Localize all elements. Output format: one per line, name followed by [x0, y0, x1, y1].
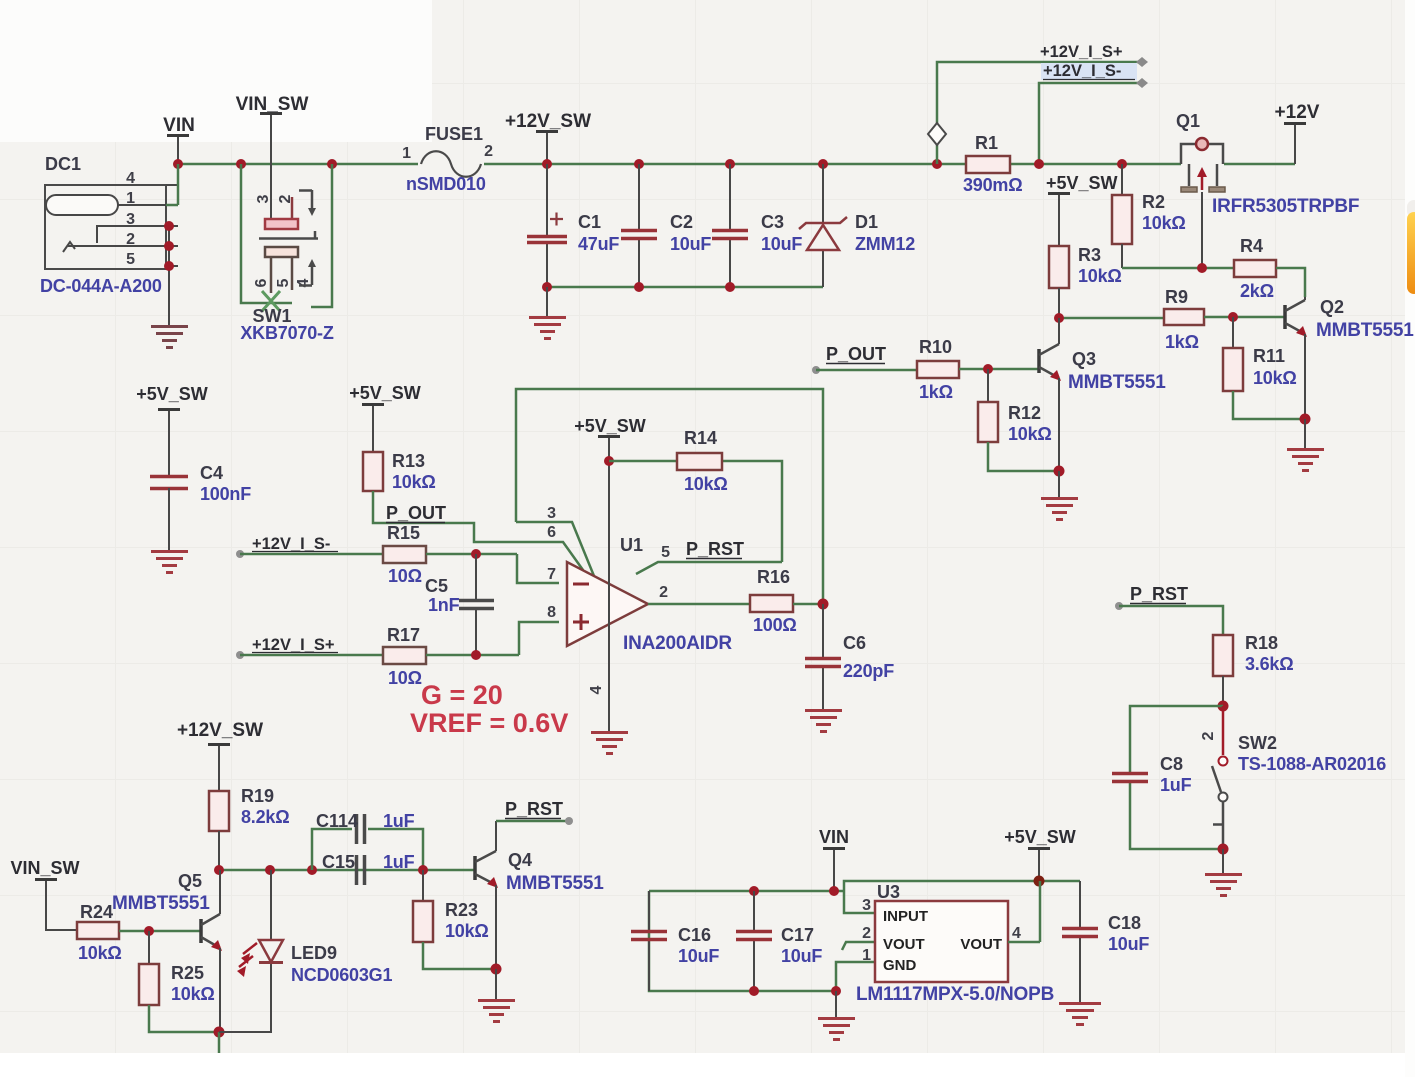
svg-text:D1: D1	[855, 212, 878, 232]
wire port to R17	[240, 654, 383, 657]
svg-text:R25: R25	[171, 963, 204, 983]
wire feedback loop top	[516, 389, 823, 602]
svg-text:MMBT5551: MMBT5551	[506, 873, 604, 894]
ground below C1	[529, 287, 566, 339]
resistor R15	[383, 523, 426, 586]
transistor Q2	[1285, 297, 1414, 419]
svg-text:3: 3	[255, 194, 272, 203]
resistor R2	[1112, 164, 1186, 268]
resistor R24	[77, 902, 122, 963]
svg-text:47uF: 47uF	[578, 234, 619, 254]
svg-text:XKB7070-Z: XKB7070-Z	[240, 323, 333, 343]
resistor R12	[978, 369, 1059, 471]
svg-text:6: 6	[547, 524, 556, 541]
capacitor C2	[621, 164, 711, 287]
resistor R16	[750, 567, 797, 635]
capacitor C15	[322, 852, 415, 885]
svg-text:INA200AIDR: INA200AIDR	[623, 633, 732, 654]
node C15 right junction	[418, 865, 428, 875]
wire stub below Q5	[218, 1032, 221, 1053]
svg-text:3.6kΩ: 3.6kΩ	[1245, 654, 1293, 674]
wire port to R15	[240, 553, 383, 556]
node C6 junction	[818, 599, 829, 610]
capacitor C17	[736, 891, 822, 991]
diode D1 zener	[799, 164, 915, 287]
wire U1 output pin2	[648, 584, 750, 604]
wire R15 to pin7	[426, 554, 559, 583]
power flag +12V_SW bottom	[177, 720, 263, 791]
node C3 top junction	[725, 159, 735, 169]
wire pin5 to R14	[636, 544, 782, 574]
node R3 bottom junction	[1054, 313, 1064, 323]
svg-text:2: 2	[862, 925, 871, 942]
power flag VIN	[163, 115, 195, 164]
svg-text:10kΩ: 10kΩ	[684, 474, 728, 494]
svg-text:10kΩ: 10kΩ	[1253, 368, 1297, 388]
wire bottom cap rail	[547, 286, 823, 289]
svg-text:R15: R15	[387, 523, 420, 543]
resistor R3	[1049, 245, 1122, 318]
wire Q4 collector to P_RST	[496, 817, 573, 825]
ground below Q3	[1041, 471, 1078, 520]
svg-text:10uF: 10uF	[678, 946, 719, 966]
LED LED9	[219, 870, 392, 1032]
svg-text:IRFR5305TRPBF: IRFR5305TRPBF	[1212, 196, 1359, 217]
capacitor C4	[150, 463, 251, 551]
resistor R11	[1223, 317, 1305, 419]
svg-text:10uF: 10uF	[781, 946, 822, 966]
ground below SW2	[1205, 849, 1242, 896]
node C17 bottom junction	[749, 986, 759, 996]
svg-text:MMBT5551: MMBT5551	[1316, 320, 1414, 341]
svg-text:4: 4	[126, 170, 135, 187]
ground below Q2	[1287, 419, 1324, 471]
svg-text:C3: C3	[761, 212, 784, 232]
node C114 branch junction	[307, 865, 317, 875]
power flag VIN_SW bottom	[10, 858, 79, 930]
wire pin6 diag	[547, 524, 583, 570]
svg-text:+12V_I_S-: +12V_I_S-	[252, 535, 330, 553]
node C2 bottom junction	[634, 282, 644, 292]
svg-text:R11: R11	[1253, 346, 1285, 366]
svg-text:10kΩ: 10kΩ	[1142, 213, 1186, 233]
resistor R4	[1234, 236, 1276, 301]
svg-text:4: 4	[588, 685, 605, 694]
svg-text:10kΩ: 10kΩ	[171, 984, 215, 1004]
svg-text:3: 3	[547, 505, 556, 522]
svg-text:nSMD010: nSMD010	[406, 174, 486, 194]
svg-text:R9: R9	[1165, 287, 1188, 307]
svg-text:220pF: 220pF	[843, 661, 894, 681]
svg-text:VIN_SW: VIN_SW	[236, 94, 309, 115]
wire current sense branch up	[937, 62, 1142, 164]
resistor R18	[1213, 633, 1293, 706]
svg-text:Q3: Q3	[1072, 349, 1096, 369]
wire R24 to Q5 base	[119, 930, 201, 933]
svg-text:+12V_I_S+: +12V_I_S+	[252, 636, 335, 654]
svg-text:P_OUT: P_OUT	[386, 503, 446, 523]
svg-text:DC-044A-A200: DC-044A-A200	[40, 276, 162, 296]
ground below Q4	[478, 969, 515, 1022]
resistor R23	[413, 870, 496, 969]
svg-text:P_RST: P_RST	[1130, 584, 1188, 604]
node Q5 emitter junction	[214, 1027, 225, 1038]
svg-text:+5V_SW: +5V_SW	[349, 383, 421, 403]
svg-text:R16: R16	[757, 567, 790, 587]
svg-text:+12V_I_S+: +12V_I_S+	[1040, 43, 1123, 61]
resistor R19	[209, 786, 289, 870]
power flag +5V_SW above U1	[574, 416, 646, 437]
svg-text:VIN: VIN	[819, 827, 849, 847]
capacitor C18	[1062, 881, 1149, 1003]
node C1 bottom junction	[542, 282, 552, 292]
connector DC1	[40, 154, 178, 296]
svg-text:8: 8	[547, 604, 556, 621]
resistor R9	[1164, 287, 1204, 352]
svg-text:10Ω: 10Ω	[388, 566, 422, 586]
power flag VIN above U3	[819, 827, 849, 891]
svg-text:VIN: VIN	[163, 115, 195, 136]
svg-text:NCD0603G1: NCD0603G1	[291, 965, 392, 985]
svg-text:+5V_SW: +5V_SW	[574, 416, 646, 436]
transistor Q3	[1039, 318, 1166, 471]
svg-text:+12V: +12V	[1275, 102, 1320, 123]
wire U3 bottom net	[649, 891, 836, 991]
node R24-R25 junction	[144, 926, 154, 936]
svg-text:10uF: 10uF	[761, 234, 802, 254]
svg-text:R10: R10	[919, 337, 952, 357]
wire DC1 pins 3-2-5 to ground	[168, 226, 170, 326]
net label P_RST mid	[686, 539, 744, 559]
svg-text:R4: R4	[1240, 236, 1263, 256]
svg-text:4: 4	[1012, 925, 1021, 942]
node +5V_SW junction	[1034, 876, 1045, 887]
node R10-R12 junction	[983, 364, 993, 374]
svg-text:R2: R2	[1142, 192, 1165, 212]
svg-text:10uF: 10uF	[1108, 934, 1149, 954]
svg-text:C17: C17	[781, 925, 814, 945]
svg-text:R1: R1	[975, 133, 998, 153]
svg-text:P_RST: P_RST	[686, 539, 744, 559]
wire R16 to C6	[793, 603, 823, 606]
svg-text:R17: R17	[387, 625, 420, 645]
capacitor C16	[631, 891, 719, 991]
resistor R25	[139, 931, 219, 1032]
wire SW1 left pole	[241, 164, 292, 303]
node DC1 pin2	[164, 241, 174, 251]
svg-text:LED9: LED9	[291, 943, 337, 963]
svg-text:+12V_SW: +12V_SW	[505, 111, 591, 132]
svg-text:100Ω: 100Ω	[753, 615, 797, 635]
ground below C6	[805, 711, 842, 732]
svg-text:+12V_I_S-: +12V_I_S-	[1043, 62, 1121, 80]
node C5 top junction	[471, 549, 481, 559]
svg-text:5: 5	[126, 251, 135, 268]
resistor R1	[963, 133, 1022, 195]
svg-text:1nF: 1nF	[428, 595, 460, 615]
fuse FUSE1	[402, 124, 493, 194]
capacitor C5	[425, 554, 494, 655]
ground below U1 pin4	[591, 733, 628, 754]
svg-text:R3: R3	[1078, 245, 1101, 265]
svg-text:+5V_SW: +5V_SW	[1046, 173, 1118, 193]
node rail-SW1 left junction	[236, 159, 246, 169]
wire R4 to Q2 collector	[1276, 268, 1305, 297]
node SW2 bottom junction	[1218, 844, 1229, 855]
node R18 bottom junction	[1218, 701, 1229, 712]
svg-text:1: 1	[862, 947, 871, 964]
wire SW1 right pole	[311, 164, 332, 307]
capacitor C114	[312, 811, 423, 870]
svg-text:10kΩ: 10kΩ	[445, 921, 489, 941]
svg-text:VOUT: VOUT	[883, 936, 925, 953]
svg-text:U3: U3	[877, 882, 900, 902]
orange scroll button right edge	[1407, 200, 1415, 294]
node DC1 pin5	[164, 261, 174, 271]
svg-text:100nF: 100nF	[200, 484, 251, 504]
node VIN junction U3	[829, 886, 839, 896]
capacitor C8	[1112, 754, 1192, 795]
power flag VIN_SW	[236, 94, 309, 219]
wire U3 input net	[649, 881, 1080, 891]
power flag +12V_SW	[505, 111, 591, 164]
svg-text:1kΩ: 1kΩ	[919, 382, 953, 402]
svg-text:SW2: SW2	[1238, 733, 1277, 753]
svg-text:G = 20: G = 20	[421, 680, 503, 710]
resistor R17	[383, 625, 426, 688]
svg-text:ZMM12: ZMM12	[855, 234, 915, 254]
svg-text:Q1: Q1	[1176, 111, 1200, 131]
node R1 right junction	[1034, 159, 1044, 169]
transistor Q4	[475, 821, 604, 969]
svg-text:C8: C8	[1160, 754, 1183, 774]
svg-text:R19: R19	[241, 786, 274, 806]
svg-text:R18: R18	[1245, 633, 1278, 653]
node C17 top junction	[749, 886, 759, 896]
power flag +5V_SW right	[1046, 173, 1118, 246]
svg-text:5: 5	[661, 544, 670, 561]
node DC1 pin3	[164, 221, 174, 231]
svg-text:GND: GND	[883, 957, 917, 974]
svg-text:C2: C2	[670, 212, 693, 232]
capacitor C6	[805, 604, 894, 710]
node VIN junction	[173, 159, 183, 169]
svg-text:U1: U1	[620, 535, 643, 555]
wire main top rail	[178, 163, 1295, 166]
node gate junction	[1197, 263, 1207, 273]
wire R17 to pin8	[426, 622, 559, 655]
wire R10 to Q3 base	[959, 368, 1039, 371]
svg-text:1uF: 1uF	[1160, 775, 1192, 795]
ground below U3	[818, 991, 855, 1040]
svg-text:390mΩ: 390mΩ	[963, 175, 1022, 195]
svg-text:FUSE1: FUSE1	[425, 124, 483, 144]
node C1 top junction	[542, 159, 552, 169]
svg-text:C15: C15	[322, 852, 355, 872]
net port +12V_I_S+	[1040, 43, 1148, 67]
annotation G = 20	[421, 680, 503, 710]
net label P_OUT mid	[386, 503, 446, 523]
net flag diamond	[928, 123, 946, 145]
transistor Q5	[112, 870, 222, 1032]
svg-text:R12: R12	[1008, 403, 1041, 423]
resistor R13	[363, 451, 436, 492]
wire pin4 riser	[1039, 881, 1042, 942]
svg-text:TS-1088-AR02016: TS-1088-AR02016	[1238, 754, 1386, 774]
capacitor C1	[527, 164, 619, 287]
svg-text:R13: R13	[392, 451, 425, 471]
switch SW2	[1200, 706, 1386, 849]
svg-text:10kΩ: 10kΩ	[78, 943, 122, 963]
ground below C18	[1059, 1004, 1101, 1025]
net port +12V_I_S- mid	[236, 535, 338, 558]
svg-text:MMBT5551: MMBT5551	[112, 893, 210, 914]
svg-text:VOUT: VOUT	[960, 936, 1002, 953]
node D1 top junction	[818, 159, 828, 169]
svg-text:C4: C4	[200, 463, 223, 483]
svg-text:+5V_SW: +5V_SW	[1004, 827, 1076, 847]
ground below DC1	[151, 327, 188, 348]
svg-text:3: 3	[862, 897, 871, 914]
svg-text:DC1: DC1	[45, 154, 81, 174]
node Q3 emitter junction	[1054, 466, 1065, 477]
svg-text:10kΩ: 10kΩ	[392, 472, 436, 492]
svg-text:Q5: Q5	[178, 871, 202, 891]
wire C8 branch	[1130, 706, 1223, 849]
transistor Q1 PMOS	[1176, 111, 1359, 268]
resistor R10	[917, 337, 959, 402]
svg-text:2: 2	[659, 584, 668, 601]
node R19 bottom junction	[214, 865, 224, 875]
svg-text:+5V_SW: +5V_SW	[136, 384, 208, 404]
svg-text:C114: C114	[316, 811, 358, 831]
wire R3 to R9	[1059, 317, 1164, 320]
power flag +5V_SW far left	[136, 384, 208, 476]
wire P_OUT to R10	[816, 369, 917, 372]
svg-text:Q4: Q4	[508, 850, 532, 870]
svg-text:10kΩ: 10kΩ	[1008, 424, 1052, 444]
svg-text:1: 1	[402, 145, 411, 162]
power flag +5V_SW above R13	[349, 383, 421, 452]
svg-text:VREF = 0.6V: VREF = 0.6V	[410, 708, 568, 738]
svg-text:2kΩ: 2kΩ	[1240, 281, 1274, 301]
node R9-R11 junction	[1228, 312, 1238, 322]
svg-text:6: 6	[253, 278, 270, 287]
node R1 left junction	[932, 159, 942, 169]
wire gate node horizontal	[1122, 267, 1234, 270]
svg-text:C6: C6	[843, 633, 866, 653]
svg-text:10kΩ: 10kΩ	[1078, 266, 1122, 286]
svg-text:C16: C16	[678, 925, 711, 945]
power flag +12V	[1275, 102, 1320, 164]
wire current sense minus branch	[1039, 83, 1139, 164]
node C2 top junction	[634, 159, 644, 169]
net label P_RST bottom	[505, 799, 563, 819]
node C5 bottom junction	[471, 650, 481, 660]
svg-text:10uF: 10uF	[670, 234, 711, 254]
wire pin3	[516, 505, 594, 576]
svg-text:C1: C1	[578, 212, 601, 232]
node R14 left junction	[604, 456, 614, 466]
op-amp U1	[547, 535, 732, 654]
svg-text:7: 7	[547, 566, 556, 583]
svg-text:Q2: Q2	[1320, 297, 1344, 317]
svg-text:P_RST: P_RST	[505, 799, 563, 819]
net port +12V_I_S+ mid	[236, 636, 338, 659]
node Q2 emitter junction	[1300, 414, 1311, 425]
svg-text:8.2kΩ: 8.2kΩ	[241, 807, 289, 827]
node R2 top junction	[1117, 159, 1127, 169]
svg-text:+12V_SW: +12V_SW	[177, 720, 263, 741]
svg-text:R14: R14	[684, 428, 717, 448]
wire P_RST to R18	[1119, 606, 1223, 635]
capacitor C3	[712, 164, 802, 287]
svg-text:MMBT5551: MMBT5551	[1068, 372, 1166, 393]
svg-text:INPUT: INPUT	[883, 908, 928, 925]
ground below C4	[151, 552, 188, 573]
annotation VREF = 0.6V	[410, 708, 568, 738]
svg-text:R23: R23	[445, 900, 478, 920]
wire R9 to Q2 base	[1204, 316, 1285, 319]
svg-text:2: 2	[484, 143, 493, 160]
wire R14 net	[609, 461, 782, 562]
svg-text:10Ω: 10Ω	[388, 668, 422, 688]
net label P_OUT	[812, 344, 886, 374]
svg-text:LM1117MPX-5.0/NOPB: LM1117MPX-5.0/NOPB	[856, 984, 1054, 1005]
svg-text:C18: C18	[1108, 913, 1141, 933]
node LED branch junction	[265, 865, 275, 875]
node U3 gnd junction	[831, 986, 841, 996]
power flag +5V_SW above C18	[1004, 827, 1076, 881]
svg-text:1uF: 1uF	[383, 852, 415, 872]
svg-text:VIN_SW: VIN_SW	[10, 858, 79, 878]
net label P_RST right	[1115, 584, 1188, 610]
svg-text:2: 2	[1200, 731, 1217, 740]
regulator U3	[836, 882, 1054, 1005]
svg-text:C5: C5	[425, 576, 448, 596]
wire R13 to pin6 (P_OUT net)	[373, 491, 558, 542]
svg-text:5: 5	[275, 278, 292, 287]
node rail-SW1 right junction	[327, 159, 337, 169]
wire base rail bottom-left	[219, 869, 475, 872]
wire U1 power pin4	[588, 436, 609, 732]
svg-text:1uF: 1uF	[383, 811, 415, 831]
net port +12V_I_S-	[1041, 62, 1148, 88]
switch SW1	[240, 190, 333, 343]
svg-text:P_OUT: P_OUT	[826, 344, 886, 364]
svg-text:R24: R24	[80, 902, 113, 922]
resistor R14	[677, 428, 728, 494]
node Q4 emitter junction	[491, 964, 502, 975]
svg-text:1kΩ: 1kΩ	[1165, 332, 1199, 352]
node C3 bottom junction	[725, 282, 735, 292]
